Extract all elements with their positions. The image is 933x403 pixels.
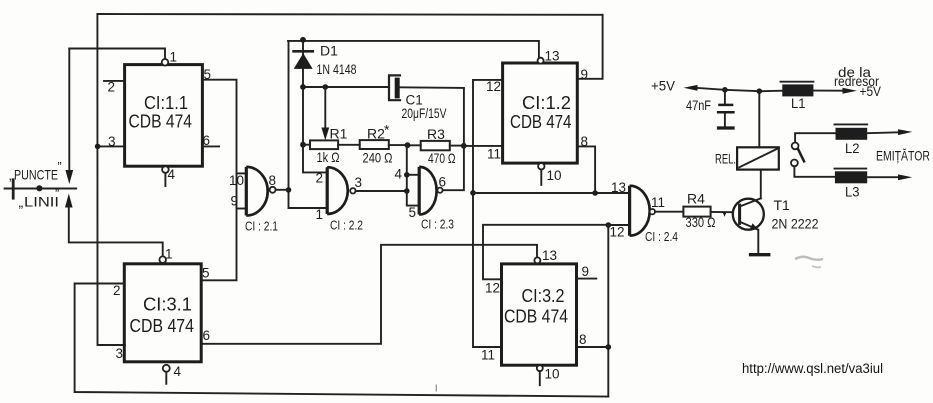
svg-text:CI:3.1: CI:3.1 [143,294,192,315]
wire R3 to node [450,145,461,147]
pin CI:3.2 pin9 stub [577,278,597,280]
wire L3 right [867,176,897,178]
inductor L2 [835,123,868,125]
svg-text:CI : 2.2: CI : 2.2 [330,219,363,233]
svg-text:470 Ω: 470 Ω [428,150,456,166]
ground T1 [749,253,771,256]
diode D1 [294,50,313,53]
svg-text:8: 8 [269,173,277,188]
wire L1 right [813,90,843,92]
svg-text:D1: D1 [320,43,338,59]
key lever wire [5,188,77,190]
wire lower contact to L3 [794,166,835,177]
svg-text:CI : 2.1: CI : 2.1 [245,220,278,234]
junction dot 47nF [722,87,728,93]
svg-text:10: 10 [545,367,560,382]
svg-text:11: 11 [651,195,665,210]
junction dot gate2.2 out [404,188,410,194]
wire CI:1.1 pin5 to gate CI:2.1 inputs to CI:3.1 pin5 [201,80,236,281]
wire second rail y41 to CI:1.2 pin13 [288,41,539,58]
svg-text:„: „ [19,194,24,210]
svg-text:5: 5 [202,266,210,281]
flip-flop CI:3.1 box [124,264,201,362]
svg-text:10: 10 [229,173,244,188]
svg-text:T1: T1 [774,197,791,213]
junction dot R1 wiper top [323,84,329,90]
svg-text:13: 13 [611,180,626,195]
svg-text:8: 8 [581,134,589,149]
svg-text:10: 10 [547,168,562,183]
svg-text:L2: L2 [845,140,860,156]
svg-text:240 Ω: 240 Ω [363,150,393,166]
switch contact upper [792,143,799,150]
svg-text:”: ” [55,187,59,201]
svg-text:CDB 474: CDB 474 [129,111,193,132]
wire gate2.4 pin12 stub [608,224,629,226]
pin circle CI:3.1 pin1 [159,256,166,263]
svg-text:L1: L1 [791,95,806,111]
wire CI:1.2 pin12 stub [473,79,503,81]
switch lever [798,149,805,163]
svg-text:47nF: 47nF [686,98,711,113]
svg-text:R4: R4 [687,191,705,207]
junction dot V2 [470,190,476,196]
artifact smudge [795,257,823,260]
wire top rail [97,13,602,16]
svg-text:CI:3.2: CI:3.2 [522,285,565,306]
svg-text:6: 6 [439,175,447,190]
gate CI:2.2 [327,167,348,214]
svg-text:13: 13 [545,49,560,64]
svg-text:REL.: REL. [715,152,736,167]
wire CI:3.1 pin2 loop to bottom rail [75,284,609,397]
junction dot R3 right [461,143,467,149]
pin circle CI:1.2 pin13 [538,58,544,64]
wire gate2.2 output to gate2.3 input [356,190,407,192]
junction dot D1 top [300,37,306,43]
capacitor 47nF [724,90,726,104]
pin circle CI:1.2 pin10 [538,163,544,169]
svg-text:1: 1 [170,50,178,65]
arrowhead R1 wiper [321,128,329,141]
svg-text:2: 2 [113,283,121,298]
svg-text:CDB 474: CDB 474 [130,315,195,336]
gate CI:2.3 [419,167,436,215]
wire L2 right [867,131,897,134]
svg-text:*: * [384,122,390,138]
artifact tick on rail [435,385,437,392]
wire node to R3 [411,144,421,146]
svg-text:R1: R1 [330,126,348,142]
flip-flop CI:1.1 box [125,65,203,167]
wire dot to R1 [303,144,310,146]
svg-text:CI : 2.4: CI : 2.4 [645,230,678,244]
svg-text:9: 9 [581,67,589,82]
wire D1 node to C1 [303,86,389,88]
svg-text:9: 9 [582,264,590,279]
gate CI:2.4 [630,186,650,236]
junction dot gate2.4 pin12 node [606,222,612,228]
svg-text:1: 1 [165,247,173,262]
wire T1 collector [760,170,762,199]
pin CI:1.1 pin6 stub [202,145,219,147]
svg-text:http://www.qsl.net/va3iul: http://www.qsl.net/va3iul [742,361,883,376]
svg-text:CI:1.2: CI:1.2 [522,92,571,113]
wire upper contact to L2 [795,133,835,142]
svg-text:2: 2 [316,171,324,186]
wire PUNCTE arrow line [68,49,70,171]
wire CI:1.1 pin3 stub [98,145,125,147]
svg-text:PUNCTE: PUNCTE [14,167,58,183]
svg-text:1k Ω: 1k Ω [317,149,340,165]
wire R1 to R2 [338,144,360,146]
wire V2 to gate2.4 pin13 [473,192,629,194]
wire relay top [758,91,760,147]
svg-text:6: 6 [203,133,211,148]
svg-text:2: 2 [108,80,116,95]
inductor L3 [835,168,867,170]
svg-text:11: 11 [487,147,501,162]
svg-text:CDB 474: CDB 474 [504,306,568,327]
diode D1 chain vertical [303,40,326,173]
svg-text:2N 2222: 2N 2222 [772,216,819,232]
svg-text:CDB 474: CDB 474 [510,111,572,132]
svg-text:4: 4 [395,167,403,182]
pin CI:1.1 pin2 stub [104,80,125,82]
wire CI:3.1 pin6 to CI:3.2 pin13 [201,245,537,344]
svg-text:9: 9 [231,194,239,209]
inductor L1 [781,81,814,83]
svg-text:4: 4 [168,167,176,182]
svg-text:R2: R2 [367,125,385,141]
gate CI:2.3 input vertical [407,145,418,205]
junction dot R2 right [405,142,411,148]
wire V2 pin12 down to CI:3.2 pin11 [473,80,502,347]
junction dot [300,84,306,90]
junction dot pin3 node [95,144,101,150]
junction dot relay [757,88,763,94]
pin circle CI:3.2 pin10 [537,365,543,371]
wire x608 vertical to bottom rail [607,225,609,397]
junction dot gate2.1 output node [286,187,292,193]
svg-text:12: 12 [610,225,625,240]
arrowhead LINII up [65,194,73,208]
wire gate2.1 output stub [276,189,289,191]
svg-text:5: 5 [409,205,417,220]
resistor R3 [421,141,450,150]
svg-text:13: 13 [542,248,557,263]
pin circle CI:3.1 pin4 [163,365,170,372]
svg-text:330 Ω: 330 Ω [686,214,716,230]
wire R4 to T1 base [711,211,733,213]
svg-text:3: 3 [108,134,116,149]
arrowhead base current [723,212,727,217]
arrowhead L2 [898,129,912,135]
flip-flop CI:3.2 box [502,264,577,365]
relay REL [737,147,779,169]
wire C1 to V1 [400,86,464,89]
arrowhead PUNCTE down [65,170,73,184]
svg-text:”: ” [58,160,62,174]
junction dot R1 left [300,142,306,148]
pin circle CI:1.1 pin4 [162,166,169,173]
resistor R4 [683,207,710,217]
junction dot key pivot [36,185,42,191]
wire CI:3.2 pin8 stub [577,346,609,348]
pin circle CI:1.1 pin1 [162,59,169,66]
junction dot CI:3.2 pin8 [606,344,612,350]
wire CI:3.2 pin12 net [483,225,608,279]
svg-text:12: 12 [486,79,501,94]
wire T1 emitter [757,230,759,254]
svg-text:R3: R3 [427,126,445,142]
junction dot CI:1.2 pin8 node [592,190,598,196]
arrowhead de la redresor [843,88,858,94]
svg-text:4: 4 [174,364,182,379]
svg-text:LINII: LINII [24,194,59,210]
svg-text:6: 6 [203,328,211,343]
wire CI:1.2 pin11 stub [464,145,502,147]
wire top rail right drop to CI:1.2 pin9 [577,15,602,79]
wire gate2.1 pin10 stub [237,172,246,174]
wire gate2.1 pin9 stub [237,208,246,210]
switch contact lower [791,160,798,167]
arrowhead +5V [684,85,698,91]
wire gate2.3 pin4 stub [407,174,418,176]
resistor R1 [310,140,338,149]
wire R1 wiper [324,87,326,129]
key knob bar [12,180,15,198]
arrowhead L3 [898,174,912,180]
flip-flop CI:1.2 box [503,63,578,163]
svg-text:3: 3 [116,346,124,361]
svg-text:1: 1 [316,207,324,222]
resistor R2 [360,140,389,149]
wire gate2.4 output to R4 [655,211,683,213]
wire LINII arrow to CI:3.1 pin1 [69,207,163,256]
wire R2 to node [389,144,405,146]
svg-text:1N 4148: 1N 4148 [317,62,357,77]
svg-text:12: 12 [485,281,500,296]
ground 47nF [717,126,735,129]
wire CI:1.2 pin8 [577,146,595,193]
capacitor C1 [389,75,400,100]
svg-text:3: 3 [355,175,363,190]
svg-text:CI : 2.3: CI : 2.3 [421,218,454,232]
wire gate2.3 output up V1 [443,88,464,190]
svg-text:+5V: +5V [860,83,882,99]
wire x288 vertical gate2.1 out to gate2.2 pin1 [289,41,326,208]
wire +5V rail [697,88,782,91]
pin circle CI:3.2 pin13 [534,257,540,263]
junction dot pin4 [404,172,410,178]
svg-text:11: 11 [481,348,495,363]
gate CI:2.1 [246,167,267,216]
wire left vertical x97 to CI:3.1 pin3 [97,14,125,345]
svg-text:EMIȚĂTOR: EMIȚĂTOR [876,148,930,164]
transistor T1 [733,199,764,230]
svg-text:20μF/15V: 20μF/15V [402,106,447,121]
wire CI:1.1 pin1 from key [69,49,165,59]
svg-text:L3: L3 [845,184,860,200]
svg-text:+5V: +5V [651,78,676,94]
svg-text:8: 8 [579,332,587,347]
